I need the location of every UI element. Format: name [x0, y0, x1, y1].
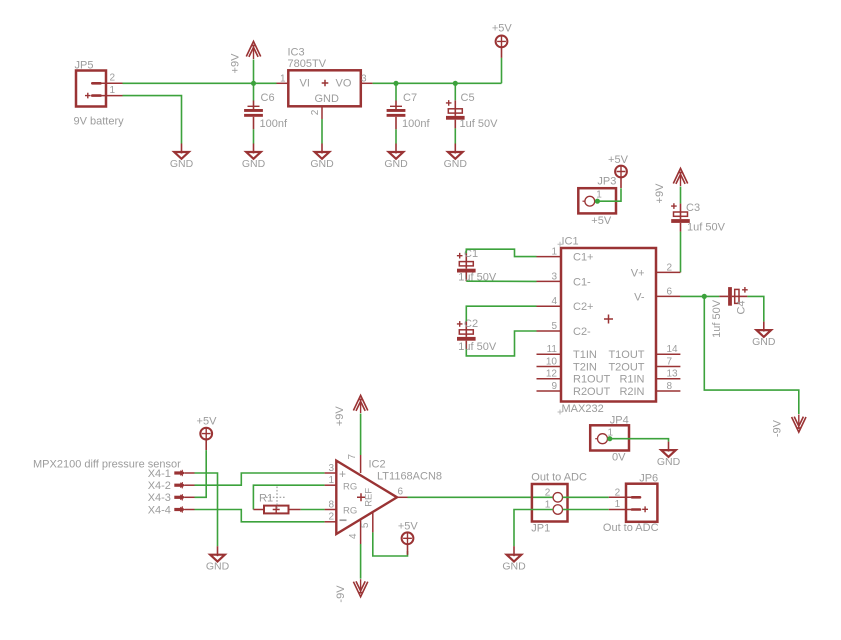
-9V supply under opamp: [353, 579, 367, 597]
svg-text:2: 2: [667, 262, 673, 273]
svg-text:5: 5: [551, 321, 557, 332]
junction at C5: [453, 81, 458, 86]
svg-text:+5V: +5V: [591, 215, 612, 227]
wire C3 to IC1 pin2: [680, 232, 682, 273]
+5V supply at X4-3: [200, 427, 212, 450]
wire R1 to opamp pin8: [301, 509, 325, 511]
svg-text:C3: C3: [686, 202, 700, 214]
pin X4-1: [148, 468, 195, 480]
wire V- to -9V: [704, 296, 799, 414]
wire X4-2 to opamp pin3: [195, 473, 325, 485]
pin X4-4: [148, 504, 195, 516]
junction at V-: [702, 294, 707, 299]
capacitor C5: [446, 100, 465, 128]
wire C5 to GND: [454, 128, 456, 143]
svg-text:LT1168ACN8: LT1168ACN8: [377, 471, 442, 483]
ground under C4: [752, 322, 776, 348]
ground at JP4: [657, 442, 681, 468]
svg-text:6: 6: [667, 286, 673, 297]
svg-text:JP4: JP4: [610, 414, 629, 426]
ground under IC3: [310, 144, 334, 170]
wire JP1 to JP6 pin2: [563, 496, 609, 498]
capacitor C7: [387, 101, 406, 130]
svg-text:1uf 50V: 1uf 50V: [711, 299, 723, 338]
svg-text:1: 1: [551, 247, 557, 258]
svg-text:9V battery: 9V battery: [74, 116, 125, 128]
svg-text:2: 2: [615, 487, 621, 498]
+5V supply at JP3: [615, 165, 627, 188]
wire JP5 pin2 to IC3: [123, 82, 277, 84]
capacitor C4: [719, 287, 747, 306]
wire X4-4 to opamp pin2: [195, 510, 325, 522]
wire C1 top to pin1: [466, 249, 536, 256]
svg-text:T2OUT: T2OUT: [608, 362, 644, 374]
svg-text:V+: V+: [631, 267, 645, 279]
svg-text:6: 6: [398, 487, 404, 498]
svg-text:+9V: +9V: [230, 53, 242, 74]
svg-text:C1+: C1+: [573, 252, 594, 264]
svg-text:C5: C5: [461, 92, 475, 104]
svg-text:1: 1: [280, 73, 286, 84]
wire +9V to C3: [680, 187, 682, 204]
ground under C7: [384, 144, 408, 170]
svg-text:13: 13: [667, 369, 679, 380]
svg-text:1: 1: [615, 499, 621, 510]
svg-text:2: 2: [310, 109, 321, 115]
connector JP3: [578, 176, 616, 227]
svg-text:7: 7: [347, 453, 358, 459]
svg-text:C7: C7: [403, 92, 417, 104]
wire C2 top to pin4: [466, 306, 536, 321]
svg-text:2: 2: [328, 512, 334, 523]
+9V supply symbol: [246, 41, 260, 59]
+9V supply at opamp: [353, 395, 367, 413]
svg-text:+9V: +9V: [654, 183, 666, 204]
svg-text:3: 3: [361, 73, 367, 84]
wire JP4 to GND: [610, 439, 669, 442]
wire C6 to GND: [253, 129, 255, 143]
wire X4-3 to +5V: [195, 450, 207, 497]
svg-text:0V: 0V: [612, 452, 626, 464]
wire IC3 output rail: [373, 82, 502, 84]
wire rail to C6: [253, 83, 255, 100]
wire rail to C7: [395, 83, 397, 100]
svg-text:JP3: JP3: [597, 176, 616, 188]
svg-text:X4-4: X4-4: [148, 504, 171, 516]
ground under C6: [242, 144, 266, 170]
svg-text:14: 14: [667, 344, 679, 355]
ground under JP5: [170, 144, 194, 170]
svg-text:+5V: +5V: [398, 521, 419, 533]
-9V supply symbol right: [792, 415, 806, 433]
capacitor C3: [671, 203, 690, 231]
SECTION: amplifier: [33, 395, 659, 602]
svg-text:+: +: [339, 467, 346, 481]
junction dot JP4 pin1: [607, 436, 612, 441]
svg-text:Out to ADC: Out to ADC: [531, 472, 587, 484]
svg-text:C4: C4: [736, 300, 748, 314]
wire IC3 pin2 to GND: [321, 119, 323, 144]
wire X4-1 to GND: [195, 473, 218, 546]
svg-text:IC1: IC1: [562, 235, 579, 247]
regulator IC3 7805TV: [277, 47, 373, 120]
svg-text:1uf 50V: 1uf 50V: [460, 118, 499, 130]
ground under JP1: [502, 546, 526, 572]
svg-text:C2-: C2-: [573, 326, 591, 338]
svg-text:100nf: 100nf: [402, 118, 430, 130]
svg-text:T1OUT: T1OUT: [608, 349, 644, 361]
wire C2 bottom to pin5: [466, 331, 536, 356]
svg-text:RG: RG: [343, 506, 357, 517]
svg-text:C6: C6: [261, 92, 275, 104]
svg-text:1: 1: [110, 85, 116, 96]
wire opamp pin1 to R1: [253, 485, 324, 509]
svg-text:T2IN: T2IN: [573, 362, 597, 374]
wire JP1 to JP6 pin1: [563, 509, 609, 511]
svg-text:10: 10: [546, 357, 558, 368]
svg-text:1: 1: [328, 475, 334, 486]
+9V supply at C3: [673, 168, 687, 186]
resistor R1: [253, 493, 300, 514]
svg-text:+5V: +5V: [608, 154, 629, 166]
svg-text:2: 2: [545, 487, 551, 498]
svg-text:JP5: JP5: [75, 60, 94, 72]
svg-text:11: 11: [547, 344, 558, 355]
wire pin5 to +5V: [373, 532, 408, 556]
svg-text:X4-3: X4-3: [148, 492, 171, 504]
wire rail to C5: [454, 83, 456, 100]
svg-text:C2+: C2+: [573, 301, 594, 313]
wire V- to C4: [680, 295, 719, 297]
SECTION: MAX232: [457, 154, 806, 468]
capacitor C6: [244, 101, 263, 130]
svg-text:-9V: -9V: [772, 419, 784, 437]
wire opamp out to JP1: [408, 496, 554, 498]
wire JP3 to +5V: [597, 188, 621, 201]
svg-text:8: 8: [328, 499, 334, 510]
connector JP6: [603, 472, 659, 534]
connector JP4: [590, 414, 629, 463]
wire C4 to GND: [747, 296, 763, 321]
+5V supply symbol top right: [496, 35, 508, 58]
svg-text:R1IN: R1IN: [619, 374, 644, 386]
svg-text:4: 4: [348, 533, 359, 539]
svg-text:+5V: +5V: [492, 23, 513, 35]
svg-text:9: 9: [551, 381, 557, 392]
svg-text:X4-1: X4-1: [148, 468, 171, 480]
svg-text:VO: VO: [336, 78, 352, 90]
ground under C5: [444, 144, 468, 170]
wire +9V down to rail: [253, 60, 255, 84]
svg-text:12: 12: [546, 369, 558, 380]
svg-text:R1: R1: [259, 493, 273, 505]
svg-text:GND: GND: [315, 93, 340, 105]
svg-text:+9V: +9V: [334, 406, 346, 427]
svg-text:5: 5: [360, 522, 371, 528]
connector JP5: [74, 60, 125, 128]
svg-text:3: 3: [328, 463, 334, 474]
pin X4-2: [148, 480, 195, 492]
svg-text:1uf 50V: 1uf 50V: [687, 222, 726, 234]
svg-text:JP6: JP6: [639, 472, 658, 484]
svg-text:MAX232: MAX232: [562, 403, 604, 415]
svg-text:7: 7: [667, 357, 673, 368]
wire pin4 to -9V: [360, 544, 362, 579]
svg-text:4: 4: [551, 296, 557, 307]
svg-text:V-: V-: [634, 291, 645, 303]
ground under X4: [206, 546, 230, 572]
wire JP1 pin1 to GND: [514, 510, 553, 547]
junction at C7: [393, 81, 398, 86]
svg-text:R2OUT: R2OUT: [573, 386, 611, 398]
capacitor C1: [457, 253, 476, 281]
SECTION: top power supply: [74, 23, 513, 170]
junction dot JP3 pin1: [595, 199, 600, 204]
svg-text:8: 8: [667, 381, 673, 392]
svg-text:C1-: C1-: [573, 276, 591, 288]
svg-text:2: 2: [110, 73, 116, 84]
svg-text:RG: RG: [343, 481, 357, 492]
svg-text:Out to ADC: Out to ADC: [603, 522, 659, 534]
svg-text:1uf 50V: 1uf 50V: [458, 341, 497, 353]
wire JP5 pin1 to GND: [123, 96, 182, 144]
wire C1 bottom to pin3: [466, 280, 536, 282]
connector JP1: [531, 472, 587, 535]
wire +9V to pin7: [360, 414, 362, 456]
svg-text:100nf: 100nf: [260, 118, 288, 130]
wire C7 to GND: [395, 129, 397, 143]
svg-text:X4-2: X4-2: [148, 480, 171, 492]
svg-text:REF: REF: [364, 488, 375, 507]
IC1 MAX232: [537, 235, 681, 415]
svg-text:R2IN: R2IN: [619, 386, 644, 398]
svg-text:+5V: +5V: [197, 416, 218, 428]
+5V supply at REF: [402, 532, 414, 555]
svg-text:3: 3: [551, 271, 557, 282]
svg-text:-9V: -9V: [335, 585, 347, 603]
op-amp IC2 LT1168ACN8: [325, 453, 442, 544]
svg-text:R1OUT: R1OUT: [573, 374, 611, 386]
svg-text:7805TV: 7805TV: [288, 58, 327, 70]
wire +5V to rail: [501, 58, 503, 83]
svg-text:IC3: IC3: [288, 47, 305, 59]
crosshair near R1: [266, 487, 285, 510]
svg-text:T1IN: T1IN: [573, 349, 597, 361]
pin X4-3: [148, 492, 195, 504]
svg-text:VI: VI: [300, 78, 310, 90]
svg-text:JP1: JP1: [531, 523, 550, 535]
svg-text:IC2: IC2: [369, 459, 386, 471]
junction at C6: [251, 81, 256, 86]
capacitor C2: [457, 321, 476, 349]
